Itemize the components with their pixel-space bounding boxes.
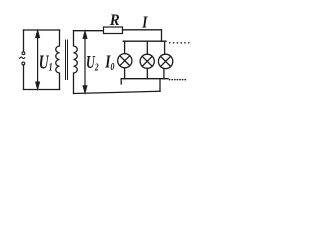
svg-text:U1: U1	[39, 51, 53, 74]
dotted continuation top	[169, 42, 190, 44]
wire: lamp bank top rail	[123, 40, 166, 42]
wire: secondary bottom return rail	[74, 91, 161, 93]
lamp EL3	[158, 54, 172, 68]
wire: lamp3 top branch	[164, 41, 166, 54]
wire: R to corner	[123, 29, 162, 31]
svg-text:R: R	[109, 11, 120, 29]
transformer core line 1	[65, 40, 67, 80]
voltage arrow U1 (double-headed)	[36, 31, 40, 89]
wire: primary loop left side lower	[23, 65, 25, 90]
wire: corner down to lamp rail	[161, 30, 163, 41]
wire: lamp1 bottom branch	[124, 68, 126, 79]
lamp EL1	[118, 54, 132, 68]
wire: lamp2 bottom branch	[146, 68, 148, 78]
AC tilde symbol	[19, 57, 25, 59]
label U2	[86, 54, 99, 73]
resistor R1 body	[104, 27, 123, 34]
label I0	[104, 53, 114, 73]
terminal circle (lower AC input)	[22, 62, 25, 65]
lamp EL2	[140, 54, 154, 68]
wire: bottom rail left hook	[120, 79, 122, 84]
wire: lamp1 top branch	[124, 41, 126, 53]
wire: lamp bank bottom rail	[121, 78, 168, 80]
wire: primary loop bottom	[24, 89, 60, 91]
wire: secondary top	[74, 30, 104, 32]
transformer secondary winding L2	[74, 31, 78, 94]
label R	[109, 11, 120, 29]
svg-text:U2: U2	[86, 54, 99, 73]
wire: lamp2 top branch	[146, 41, 148, 54]
dotted continuation bottom	[169, 79, 186, 81]
svg-text:I0: I0	[104, 53, 114, 73]
label I	[141, 14, 148, 32]
wire: right drop to return rail	[159, 79, 161, 92]
transformer primary winding L1	[56, 30, 60, 90]
terminal circle (upper AC input)	[22, 52, 25, 55]
svg-text:I: I	[141, 14, 148, 32]
wire: primary loop left side upper	[23, 30, 25, 52]
voltage arrow U2 (double-headed)	[83, 32, 87, 93]
label U1	[39, 51, 53, 74]
wire: primary loop top	[24, 29, 60, 31]
transformer core line 2	[67, 40, 69, 80]
wire: lamp3 bottom branch	[163, 69, 165, 79]
